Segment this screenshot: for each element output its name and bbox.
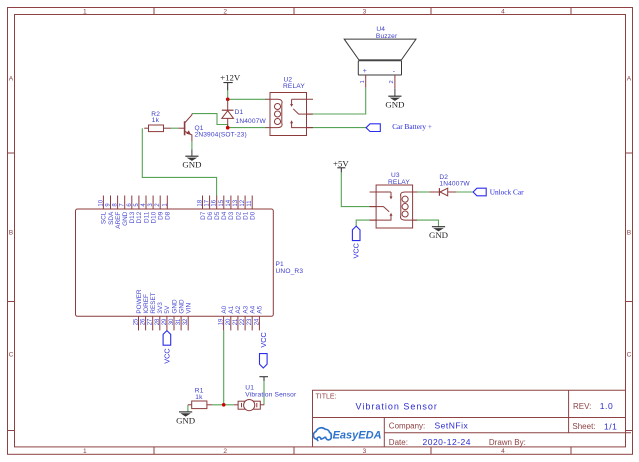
svg-text:GND: GND (122, 211, 129, 226)
svg-text:VCC: VCC (162, 348, 171, 363)
svg-text:3: 3 (363, 448, 367, 455)
svg-text:GND: GND (176, 415, 195, 425)
svg-text:A5: A5 (257, 305, 264, 313)
svg-text:30: 30 (169, 318, 175, 325)
svg-text:+: + (363, 68, 367, 75)
svg-text:1k: 1k (195, 394, 203, 401)
svg-text:16: 16 (212, 199, 218, 206)
svg-text:A: A (627, 76, 632, 83)
svg-text:Unlock Car: Unlock Car (490, 188, 524, 197)
svg-text:Vibration Sensor: Vibration Sensor (245, 392, 297, 399)
svg-text:2: 2 (223, 448, 227, 455)
svg-text:POWER: POWER (136, 289, 143, 314)
svg-text:GND: GND (178, 299, 185, 314)
svg-text:2020-12-24: 2020-12-24 (423, 437, 471, 447)
svg-text:Drawn By:: Drawn By: (489, 438, 526, 447)
svg-text:1N4007W: 1N4007W (439, 180, 470, 187)
svg-text:1.0: 1.0 (600, 401, 614, 411)
svg-text:AREF: AREF (115, 212, 122, 229)
svg-text:26: 26 (141, 318, 147, 325)
svg-text:GND: GND (171, 299, 178, 314)
svg-text:17: 17 (205, 199, 211, 206)
svg-text:1: 1 (360, 80, 366, 83)
svg-text:D12: D12 (136, 211, 143, 223)
svg-text:11: 11 (247, 200, 253, 207)
svg-text:Company:: Company: (389, 422, 425, 431)
svg-text:-: - (393, 69, 396, 76)
svg-text:RELAY: RELAY (388, 179, 410, 186)
svg-text:D4: D4 (221, 211, 228, 220)
svg-text:5V: 5V (164, 305, 171, 314)
svg-text:2N3904(SOT-23): 2N3904(SOT-23) (195, 131, 247, 138)
svg-text:20: 20 (226, 318, 232, 325)
svg-text:22: 22 (240, 318, 246, 325)
svg-text:2: 2 (389, 80, 395, 83)
svg-text:D9: D9 (158, 211, 165, 220)
svg-text:18: 18 (198, 199, 204, 206)
svg-text:A3: A3 (242, 305, 249, 313)
svg-text:21: 21 (233, 318, 239, 325)
svg-text:D1: D1 (235, 109, 244, 116)
svg-text:13: 13 (233, 199, 239, 206)
svg-text:VIN: VIN (186, 303, 193, 314)
svg-text:D7: D7 (200, 211, 207, 220)
svg-text:GND: GND (429, 230, 448, 240)
svg-text:15: 15 (219, 199, 225, 206)
svg-text:EasyEDA: EasyEDA (333, 430, 382, 442)
svg-text:1: 1 (83, 448, 87, 455)
svg-text:A2: A2 (235, 305, 242, 313)
svg-text:GND: GND (182, 160, 201, 170)
svg-text:D11: D11 (143, 211, 150, 223)
svg-text:3V3: 3V3 (157, 302, 164, 314)
svg-text:10: 10 (98, 199, 104, 206)
svg-text:IOREF: IOREF (143, 294, 150, 314)
svg-text:C: C (9, 352, 14, 359)
svg-text:4: 4 (501, 448, 505, 455)
svg-text:B: B (9, 230, 14, 237)
svg-text:Buzzer: Buzzer (376, 33, 398, 40)
svg-text:19: 19 (219, 318, 225, 325)
svg-text:D1: D1 (242, 211, 249, 220)
svg-text:B: B (627, 230, 632, 237)
svg-text:A: A (9, 76, 14, 83)
svg-text:REV:: REV: (573, 402, 591, 411)
svg-text:RESET: RESET (150, 292, 157, 313)
svg-text:24: 24 (254, 318, 260, 325)
svg-text:32: 32 (183, 318, 189, 325)
svg-text:23: 23 (247, 318, 253, 325)
svg-text:1: 1 (83, 9, 87, 16)
svg-text:C: C (627, 352, 632, 359)
svg-text:4: 4 (501, 9, 505, 16)
svg-text:UNO_R3: UNO_R3 (276, 268, 304, 275)
svg-text:25: 25 (134, 318, 140, 325)
svg-text:28: 28 (155, 318, 161, 325)
svg-text:12: 12 (240, 199, 246, 206)
svg-text:D8: D8 (165, 211, 172, 220)
svg-text:Vibration Sensor: Vibration Sensor (356, 401, 438, 411)
svg-text:D10: D10 (150, 211, 157, 223)
svg-text:3: 3 (363, 9, 367, 16)
svg-text:SCL: SCL (101, 211, 108, 224)
svg-text:Date:: Date: (389, 438, 408, 447)
svg-text:A1: A1 (228, 305, 235, 313)
svg-text:31: 31 (176, 318, 182, 325)
svg-text:VCC: VCC (259, 332, 268, 347)
svg-text:2: 2 (223, 9, 227, 16)
svg-text:D6: D6 (207, 211, 214, 220)
svg-text:SetNFix: SetNFix (435, 420, 469, 430)
svg-text:Car Battery +: Car Battery + (392, 122, 432, 131)
svg-text:D13: D13 (129, 211, 136, 223)
svg-text:Sheet:: Sheet: (572, 422, 595, 431)
svg-text:D5: D5 (214, 211, 221, 220)
svg-text:A4: A4 (250, 305, 257, 313)
svg-text:SDA: SDA (108, 211, 115, 225)
svg-text:1N4007W: 1N4007W (236, 118, 267, 125)
svg-text:P1: P1 (276, 261, 285, 268)
svg-text:TITLE:: TITLE: (316, 394, 337, 401)
svg-text:+12V: +12V (220, 72, 241, 82)
svg-text:RELAY: RELAY (283, 83, 305, 90)
svg-text:27: 27 (148, 318, 154, 325)
svg-text:U1: U1 (245, 384, 254, 391)
svg-text:GND: GND (385, 100, 404, 110)
svg-text:1/1: 1/1 (604, 421, 617, 431)
svg-text:VCC: VCC (352, 243, 361, 258)
svg-text:+5V: +5V (333, 158, 349, 168)
svg-text:1k: 1k (152, 117, 160, 124)
svg-text:14: 14 (226, 199, 232, 206)
svg-text:A0: A0 (221, 305, 228, 313)
svg-text:29: 29 (162, 318, 168, 325)
svg-text:D2: D2 (235, 211, 242, 220)
svg-text:D0: D0 (250, 211, 257, 220)
svg-text:D3: D3 (228, 211, 235, 220)
